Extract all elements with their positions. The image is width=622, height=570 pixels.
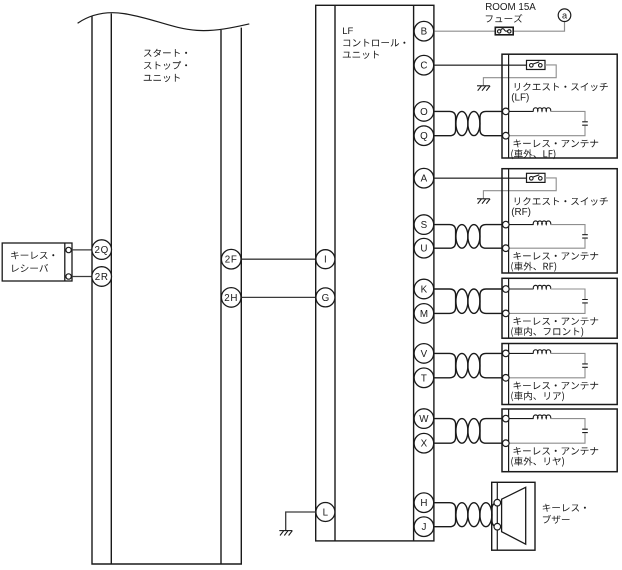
keyless antenna front interior internals: coil and capacitor	[509, 288, 534, 290]
svg-text:2Q: 2Q	[94, 245, 108, 256]
terminal L	[316, 503, 335, 522]
antenna label キーレス・アンテナ (車外、LF)	[511, 139, 598, 159]
antenna label キーレス・アンテナ (車外、リヤ)	[511, 447, 598, 467]
terminal 2R	[92, 267, 112, 287]
terminal H	[414, 493, 434, 513]
svg-text:2F: 2F	[225, 255, 238, 266]
connector circles on box rear interior	[503, 350, 510, 357]
svg-text:J: J	[421, 522, 426, 533]
svg-text:2R: 2R	[95, 272, 109, 283]
antenna label キーレス・アンテナ (車内、フロント)	[511, 317, 598, 337]
wire B to fuse to connector a	[435, 22, 565, 32]
connector circles on box rear exterior	[503, 415, 510, 422]
terminal V	[414, 344, 434, 364]
connector circles on box LF	[503, 108, 510, 115]
start-stop unit label スタート・ストップ・ユニット	[144, 49, 187, 82]
twisted pair wires to buzzer	[435, 503, 499, 527]
terminal I	[316, 250, 335, 269]
svg-text:B: B	[421, 27, 428, 38]
LF control unit label LF コントロール・ユニット	[342, 26, 405, 59]
component box rear exterior antenna	[502, 409, 617, 472]
connector circles on box front interior	[503, 286, 510, 293]
terminal 2F	[221, 249, 241, 269]
request switch label リクエスト・スイッチ (LF)	[511, 83, 608, 104]
terminal X	[414, 433, 434, 453]
terminal T	[414, 368, 434, 388]
fuse label フューズ	[486, 15, 493, 22]
svg-text:C: C	[420, 61, 427, 72]
keyless buzzer box	[492, 482, 535, 550]
antenna label キーレス・アンテナ (車内、リア)	[511, 382, 598, 402]
terminal S	[414, 215, 434, 235]
wire receiver to 2R	[71, 276, 93, 278]
connector circles on box RF	[503, 221, 510, 228]
svg-text:T: T	[421, 373, 427, 384]
antenna label キーレス・アンテナ (車外、RF)	[511, 252, 598, 272]
terminal O	[414, 102, 434, 122]
terminal C	[414, 55, 434, 75]
terminal M	[414, 304, 434, 324]
svg-text:I: I	[324, 255, 327, 266]
component box LF antenna	[502, 54, 617, 158]
terminal J	[414, 517, 434, 537]
svg-text:K: K	[421, 285, 428, 296]
keyless antenna rear exterior internals: coil and capacitor	[509, 418, 534, 420]
keyless receiver label キーレス・レシーバ	[11, 251, 54, 272]
svg-text:L: L	[323, 508, 329, 519]
svg-text:S: S	[421, 220, 428, 231]
request switch label リクエスト・スイッチ (RF)	[511, 197, 608, 218]
component box front interior antenna	[502, 278, 617, 338]
start-stop unit box	[78, 13, 250, 564]
wire 2F to I	[241, 258, 315, 260]
component box rear interior antenna	[502, 344, 617, 405]
svg-text:Q: Q	[420, 131, 428, 142]
svg-text:G: G	[322, 293, 330, 304]
component box RF antenna	[502, 169, 617, 273]
ground for request switch RF	[477, 199, 490, 204]
keyless receiver box	[2, 243, 72, 281]
terminal B	[414, 21, 434, 41]
receiver pin circle upper	[66, 247, 71, 252]
svg-text:W: W	[419, 414, 429, 425]
wire C to request switch LF	[435, 64, 527, 66]
svg-text:(LF): (LF)	[511, 93, 529, 104]
svg-text:A: A	[421, 174, 428, 185]
wire A to request switch RF	[435, 177, 527, 179]
terminal A	[414, 168, 434, 188]
request switch RF return wire to ground	[483, 178, 556, 199]
terminal G	[316, 288, 335, 307]
connector a	[558, 9, 571, 22]
ground for terminal L	[279, 531, 292, 536]
svg-text:U: U	[420, 244, 427, 255]
svg-text:X: X	[421, 439, 428, 450]
wire 2H to G	[241, 296, 315, 298]
buzzer connector circle upper	[494, 499, 501, 506]
wire receiver to 2Q	[71, 249, 93, 251]
wire L to ground	[286, 512, 316, 531]
request switch LF	[527, 60, 546, 69]
twisted pair wires to antenna rear interior	[435, 353, 503, 377]
buzzer label キーレス・ブザー	[543, 504, 586, 524]
twisted pair wires to antenna front interior	[435, 289, 503, 313]
buzzer speaker symbol	[502, 487, 526, 544]
buzzer connector circle lower	[494, 523, 501, 530]
svg-text:ROOM 15A: ROOM 15A	[485, 2, 536, 13]
twisted pair wires to antenna rear exterior	[435, 419, 503, 444]
keyless antenna LF internals: coil and capacitor	[509, 110, 534, 112]
svg-text:O: O	[420, 107, 428, 118]
twisted pair wires to antenna RF	[435, 225, 503, 249]
twisted pair wires to antenna LF	[435, 111, 503, 135]
keyless antenna rear interior internals: coil and capacitor	[509, 352, 534, 354]
request switch RF	[527, 173, 546, 182]
svg-text:2H: 2H	[224, 293, 238, 304]
terminal Q	[414, 126, 434, 146]
terminal 2Q	[92, 240, 112, 260]
svg-text:a: a	[562, 10, 568, 20]
fuse ROOM 15A	[495, 27, 513, 35]
terminal W	[414, 409, 434, 429]
LF control unit box	[316, 5, 434, 541]
svg-text:(RF): (RF)	[511, 207, 531, 218]
ground for request switch LF	[477, 86, 490, 91]
keyless antenna RF internals: coil and capacitor	[509, 224, 534, 226]
terminal U	[414, 238, 434, 258]
request switch LF return wire to ground	[483, 65, 556, 86]
svg-text:M: M	[420, 309, 428, 320]
receiver pin circle lower	[66, 274, 71, 279]
svg-text:V: V	[421, 349, 428, 360]
svg-text:LF: LF	[342, 26, 353, 37]
terminal K	[414, 279, 434, 299]
fuse label ROOM 15A	[485, 2, 536, 23]
svg-text:H: H	[420, 498, 427, 509]
terminal 2H	[221, 288, 241, 308]
